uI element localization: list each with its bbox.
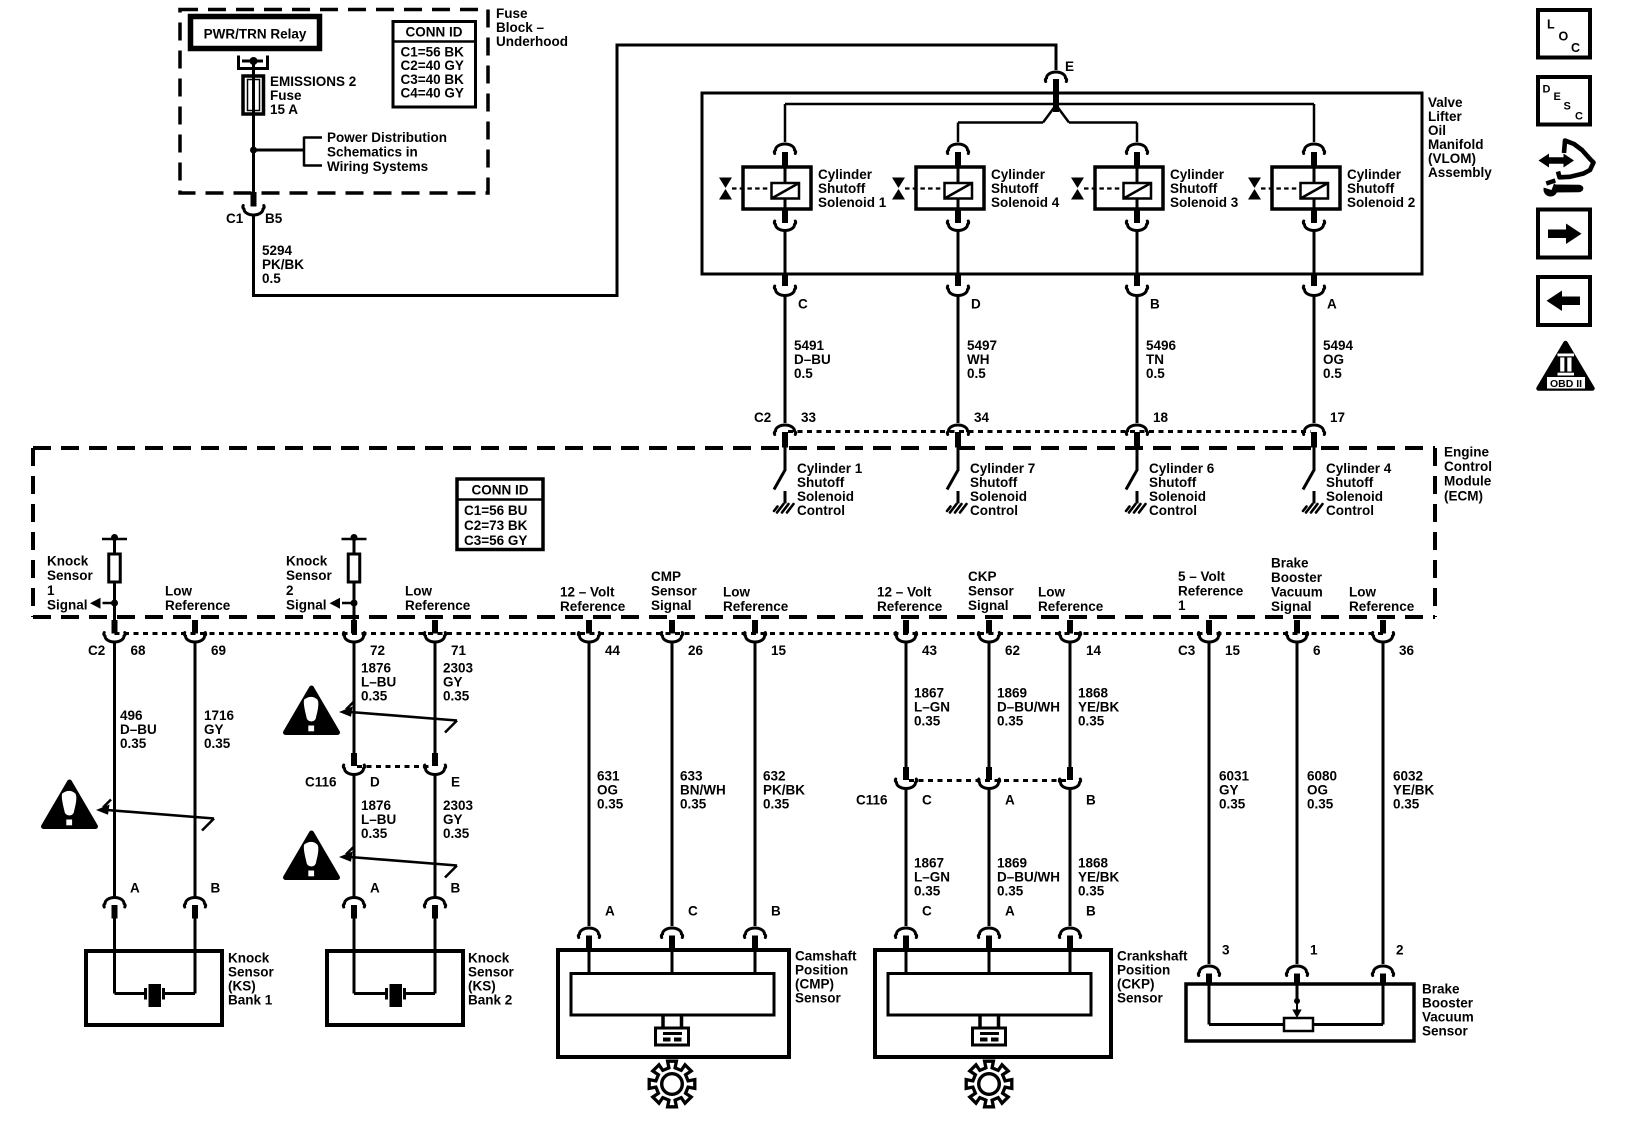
KS1 pin B (192, 905, 198, 919)
wire label: 1716 GY 0.35 (204, 708, 235, 751)
wire: C116 to CKP B (1069, 789, 1072, 927)
label: Low Reference (CKP) (1038, 584, 1104, 614)
svg-text:44: 44 (605, 643, 621, 658)
svg-text:PWR/TRN Relay: PWR/TRN Relay (204, 27, 307, 42)
BBV pin 1 (1294, 974, 1300, 985)
label: Knock Sensor (KS) Bank 1 (228, 951, 275, 1008)
BBV internal wiring (1209, 984, 1383, 1025)
svg-text:1868: 1868 (1078, 856, 1109, 871)
svg-text:2: 2 (1396, 943, 1404, 958)
svg-text:632: 632 (763, 769, 786, 784)
relay contact symbol (237, 56, 269, 71)
connector C1 pin B5 (251, 192, 257, 207)
svg-text:E: E (451, 775, 460, 790)
svg-text:6: 6 (1313, 643, 1321, 658)
svg-text:Solenoid: Solenoid (1326, 489, 1383, 504)
KS1 socket A (104, 897, 125, 907)
label: pin 33 (801, 410, 817, 425)
svg-text:Low: Low (1349, 584, 1376, 599)
junction node (111, 600, 118, 607)
label: E (1065, 59, 1074, 74)
(CKP) plug symbol (973, 1015, 1006, 1045)
connector C2 pin 33 (782, 432, 788, 448)
icon: DESC box (1538, 77, 1590, 125)
ECM dashed border top (33, 446, 1435, 450)
junction node (250, 147, 257, 154)
solenoid 2 bottom pin (1311, 209, 1317, 223)
icon: OBD II triangle (1539, 343, 1593, 390)
wire: B into KS2 (434, 919, 437, 952)
label: pin 15 (771, 643, 787, 658)
svg-text:Knock: Knock (228, 951, 270, 966)
svg-text:C1=56 BU: C1=56 BU (464, 503, 527, 518)
VLOM connector pin C (782, 274, 788, 286)
CMP socket C (661, 928, 682, 938)
ECM connector socket 72 (343, 633, 364, 643)
svg-text:Sensor: Sensor (228, 965, 275, 980)
wire label lower: 1868 YE/BK 0.35 (1078, 856, 1120, 899)
svg-text:C3: C3 (1178, 643, 1196, 658)
svg-text:34: 34 (974, 410, 990, 425)
label: pin 34 (974, 410, 990, 425)
svg-text:18: 18 (1153, 410, 1169, 425)
wire: bias to resistor (113, 539, 116, 554)
svg-text:GY: GY (1219, 783, 1239, 798)
solenoid 1 bottom socket (774, 221, 795, 231)
VLOM connector socket A (1303, 286, 1324, 296)
svg-text:Cylinder 1: Cylinder 1 (797, 461, 863, 476)
dotted connector line ECM bottom row (115, 632, 1384, 635)
svg-text:YE/BK: YE/BK (1393, 783, 1435, 798)
svg-text:5491: 5491 (794, 338, 825, 353)
svg-text:Cylinder 7: Cylinder 7 (970, 461, 1035, 476)
solenoid 4 coil (945, 183, 973, 199)
label: pin B (CMP) (771, 904, 781, 919)
icon: right arrow box (1538, 210, 1590, 258)
svg-text:Reference: Reference (877, 599, 943, 614)
wire: resistor to junction (353, 582, 356, 621)
svg-text:0.35: 0.35 (763, 797, 790, 812)
wire: bus solenoid 1 to solenoid 2 (785, 103, 1314, 106)
svg-text:Shutoff: Shutoff (1326, 475, 1374, 490)
ECM connector pin 15 (1206, 620, 1212, 634)
ECM connector socket 68 (104, 633, 125, 643)
svg-text:C2: C2 (88, 643, 105, 658)
svg-text:Position: Position (1117, 963, 1170, 978)
CKP pin B (1067, 936, 1073, 951)
wire label: 5491 D–BU 0.5 (794, 338, 831, 381)
svg-text:0.35: 0.35 (997, 884, 1024, 899)
svg-text:0.35: 0.35 (443, 689, 470, 704)
svg-text:Reference: Reference (405, 598, 471, 613)
(CMP) plug symbol (656, 1015, 689, 1045)
svg-text:Reference: Reference (1038, 599, 1104, 614)
label: pin B (KS2) (451, 881, 461, 896)
wire label: 6032 YE/BK 0.35 (1393, 769, 1435, 812)
svg-text:Crankshaft: Crankshaft (1117, 949, 1188, 964)
ECM connector socket 14 (1059, 633, 1080, 643)
svg-text:C: C (798, 297, 808, 312)
svg-text:Bank 2: Bank 2 (468, 993, 512, 1008)
svg-text:Assembly: Assembly (1428, 165, 1492, 180)
svg-text:A: A (130, 881, 140, 896)
svg-text:Solenoid: Solenoid (797, 489, 854, 504)
svg-text:0.35: 0.35 (443, 826, 470, 841)
svg-text:1867: 1867 (914, 686, 944, 701)
wire: pin 68 to KS1 A (113, 642, 116, 898)
wire: solenoid circuit 34 (957, 296, 960, 424)
svg-text:5 – Volt: 5 – Volt (1178, 569, 1226, 584)
BBV socket 1 (1286, 966, 1307, 976)
svg-text:L–BU: L–BU (361, 812, 396, 827)
connector C2 socket pin 33 (774, 425, 795, 435)
ground (cylinder 1 driver) (774, 504, 794, 513)
svg-text:E: E (1065, 59, 1074, 74)
label: Low Reference (165, 584, 231, 614)
solenoid 4 top socket (947, 144, 968, 154)
wire: ECM to C116 C (905, 642, 908, 769)
label: pin A (1327, 297, 1337, 312)
label: pin A (KS1) (130, 881, 140, 896)
ECM connector socket 6 (1286, 633, 1307, 643)
KS1 internal wiring (115, 951, 196, 994)
solenoid 1 bottom pin (782, 209, 788, 223)
svg-text:0.5: 0.5 (1146, 366, 1165, 381)
svg-text:GY: GY (443, 812, 463, 827)
svg-text:1716: 1716 (204, 708, 235, 723)
VLOM connector pin A (1311, 274, 1317, 286)
svg-text:OBD II: OBD II (1550, 378, 1582, 390)
svg-text:Sensor: Sensor (47, 568, 94, 583)
warning triangle (KS1 note) (44, 782, 96, 827)
label: pin A (KS2) (370, 881, 380, 896)
warning triangle (KS2 lower note) (286, 833, 338, 878)
ECM connector socket 43 (895, 633, 916, 643)
svg-text:6031: 6031 (1219, 769, 1250, 784)
wire label: 633 BN/WH 0.35 (680, 769, 726, 812)
svg-text:Block –: Block – (496, 20, 545, 35)
label: Fuse Block - Underhood (496, 6, 568, 49)
C116 socket E (424, 765, 445, 775)
svg-text:D: D (971, 297, 981, 312)
wire: ECM to BBV 2 (1382, 642, 1385, 965)
svg-text:0.35: 0.35 (597, 797, 624, 812)
label: Knock Sensor 2 Signal (286, 554, 333, 613)
svg-text:Sensor: Sensor (1117, 991, 1164, 1006)
svg-text:Shutoff: Shutoff (1170, 181, 1218, 196)
svg-text:Control: Control (1444, 459, 1492, 474)
wire: bus to solenoid 3 (1136, 123, 1139, 143)
brake booster vacuum sensor box (1186, 984, 1414, 1041)
svg-text:Low: Low (1038, 584, 1065, 599)
solenoid 2 valve symbol (1248, 178, 1261, 200)
cylinder shutoff solenoid 4 box (916, 167, 984, 209)
svg-text:Solenoid: Solenoid (970, 489, 1027, 504)
svg-text:2303: 2303 (443, 661, 474, 676)
svg-text:Knock: Knock (286, 554, 328, 569)
solenoid 2 dashed actuator link (1261, 187, 1298, 189)
BBV socket 2 (1372, 966, 1393, 976)
ECM connector pin 71 (432, 620, 438, 634)
svg-text:Wiring Systems: Wiring Systems (327, 159, 428, 174)
svg-text:C3=40 BK: C3=40 BK (401, 72, 465, 87)
label: C3 (ECM bottom) (1178, 643, 1196, 658)
svg-text:B: B (1086, 793, 1096, 808)
label: pin 17 (1330, 410, 1345, 425)
wire: branch to reference bracket (254, 149, 305, 152)
(CMP) sensor box (558, 950, 789, 1057)
svg-text:Sensor: Sensor (968, 584, 1015, 599)
wire: ECM to C116 B (1069, 642, 1072, 769)
ECM driver switch for cylinder 4 (1303, 447, 1314, 504)
ECM connector pin 43 (903, 620, 909, 634)
warning triangle (KS2 upper note) (286, 688, 338, 733)
knock sensor (KS) bank 1 box (86, 951, 222, 1025)
wire: solenoid 3 to VLOM case (1136, 231, 1139, 275)
ECM connector socket 15 (1198, 633, 1219, 643)
label: C1 (226, 211, 244, 226)
wire label: 496 D-BU 0.35 (120, 708, 157, 751)
reference bracket (304, 137, 322, 167)
svg-text:Fuse: Fuse (496, 6, 528, 21)
solenoid 3 top pin (1134, 152, 1140, 168)
VLOM connector socket D (947, 286, 968, 296)
svg-text:Control: Control (970, 503, 1018, 518)
svg-text:C2=40 GY: C2=40 GY (401, 58, 464, 73)
label: pin A (CKP) (1005, 904, 1015, 919)
label: pin 26 (688, 643, 704, 658)
wire: pin 71 to C116 E (434, 642, 437, 755)
svg-text:72: 72 (370, 643, 385, 658)
resistor (knock sensor 2 bias) (348, 554, 360, 582)
svg-text:OG: OG (1307, 783, 1328, 798)
ECM knock sensor 2 bias bar (342, 534, 367, 541)
leader arrow (KS1 note) (96, 800, 214, 831)
svg-text:B: B (771, 904, 781, 919)
label: Low Reference (CMP) (723, 584, 789, 614)
svg-text:Signal: Signal (286, 597, 327, 612)
svg-text:C116: C116 (305, 775, 337, 790)
label: Cylinder 7 Shutoff Solenoid Control (970, 461, 1035, 518)
wire label: 5496 TN 0.5 (1146, 338, 1177, 381)
svg-text:1876: 1876 (361, 661, 392, 676)
svg-text:Shutoff: Shutoff (797, 475, 845, 490)
svg-text:Engine: Engine (1444, 445, 1489, 460)
svg-text:YE/BK: YE/BK (1078, 700, 1120, 715)
svg-text:D–BU: D–BU (120, 722, 157, 737)
label: pin E (451, 775, 460, 790)
KS1 pin A (112, 905, 118, 919)
svg-text:68: 68 (131, 643, 147, 658)
svg-text:Valve: Valve (1428, 95, 1463, 110)
svg-text:5496: 5496 (1146, 338, 1177, 353)
label: pin 14 (1086, 643, 1102, 658)
svg-text:Cylinder 6: Cylinder 6 (1149, 461, 1215, 476)
KS2 internal wiring (354, 951, 435, 994)
ECM driver switch for cylinder 6 (1126, 447, 1137, 504)
wire: resistor to junction (113, 582, 116, 621)
label: pin B (C116 CKP) (1086, 793, 1096, 808)
wire: solenoid 1 to VLOM case (784, 231, 787, 275)
label: pin 68 (131, 643, 147, 658)
label: C2 (ECM bottom) (88, 643, 105, 658)
cylinder shutoff solenoid 2 box (1272, 167, 1340, 209)
wire: C116 D to KS2 A (353, 775, 356, 898)
svg-text:B: B (1150, 297, 1160, 312)
wire: A into KS1 (113, 919, 116, 952)
ECM dashed border left (31, 448, 35, 617)
ECM knock sensor 1 bias bar (102, 534, 127, 541)
svg-text:Solenoid 4: Solenoid 4 (991, 195, 1060, 210)
svg-text:0.35: 0.35 (1307, 797, 1334, 812)
CONN ID table (ECM) (457, 479, 543, 550)
solenoid 3 bottom pin (1134, 209, 1140, 223)
ground (cylinder 4 driver) (1303, 504, 1323, 513)
(CMP) inner element (571, 950, 774, 1015)
label: Valve Lifter Oil Manifold (VLOM) Assembly (1428, 95, 1492, 180)
svg-text:OG: OG (1323, 352, 1344, 367)
VLOM connector pin D (955, 274, 961, 286)
knock sensor (KS) bank 2 box (327, 951, 463, 1025)
label: pin 2 (BBV) (1396, 943, 1404, 958)
label: Cylinder 4 Shutoff Solenoid Control (1326, 461, 1392, 518)
label: Cylinder Shutoff Solenoid 2 (1347, 167, 1415, 210)
connector E pin into VLOM (1053, 79, 1059, 112)
ECM connector pin 72 (351, 620, 357, 634)
svg-text:D–BU/WH: D–BU/WH (997, 870, 1060, 885)
svg-text:CONN ID: CONN ID (406, 24, 463, 39)
svg-text:Knock: Knock (468, 951, 510, 966)
relay K: PWR/TRN Relay box (191, 17, 320, 49)
svg-text:Control: Control (1149, 503, 1197, 518)
label: pin 36 (1399, 643, 1415, 658)
svg-text:Reference: Reference (560, 599, 626, 614)
KS1 socket B (184, 897, 205, 907)
svg-text:S: S (1564, 101, 1571, 113)
svg-text:0.35: 0.35 (1219, 797, 1246, 812)
CKP socket B (1059, 928, 1080, 938)
svg-text:C: C (1571, 41, 1580, 55)
wire label: 1876 L-BU 0.35 (upper) (361, 661, 396, 704)
wire label: 5497 WH 0.5 (967, 338, 997, 381)
svg-text:1: 1 (1310, 943, 1318, 958)
label: 5-Volt Reference 1 (1178, 569, 1244, 613)
wire label upper: 1869 D–BU/WH 0.35 (997, 686, 1060, 729)
wire: fuse down to connector C1 (252, 114, 255, 192)
wire label: 632 PK/BK 0.35 (763, 769, 805, 812)
svg-text:Cylinder: Cylinder (1347, 167, 1402, 182)
svg-text:Oil: Oil (1428, 123, 1446, 138)
svg-text:BN/WH: BN/WH (680, 783, 726, 798)
svg-text:CONN ID: CONN ID (472, 482, 529, 497)
label: Knock Sensor 1 Signal (47, 554, 94, 613)
svg-text:C2=73 BK: C2=73 BK (464, 518, 528, 533)
svg-text:D: D (1543, 84, 1551, 96)
connector C2 socket pin 17 (1303, 425, 1324, 435)
label: Cylinder Shutoff Solenoid 3 (1170, 167, 1239, 210)
ECM connector socket 62 (978, 633, 999, 643)
svg-text:D–BU/WH: D–BU/WH (997, 700, 1060, 715)
solenoid 3 valve symbol (1071, 178, 1084, 200)
svg-text:Reference: Reference (1349, 599, 1415, 614)
svg-text:O: O (1559, 30, 1569, 44)
svg-text:(KS): (KS) (228, 979, 256, 994)
BBV socket 3 (1198, 966, 1219, 976)
svg-text:Signal: Signal (968, 598, 1009, 613)
svg-text:26: 26 (688, 643, 704, 658)
svg-text:6080: 6080 (1307, 769, 1337, 784)
wire: C1 to connector E (254, 45, 1057, 296)
ECM connector pin 44 (586, 620, 592, 634)
label: pin 44 (605, 643, 621, 658)
CKP pin C (903, 936, 909, 951)
solenoid 3 top socket (1126, 144, 1147, 154)
cylinder shutoff solenoid 3 box (1095, 167, 1163, 209)
svg-text:(CMP): (CMP) (795, 977, 834, 992)
icon: LOC box (1538, 10, 1590, 58)
ECM connector pin 15 (752, 620, 758, 634)
svg-text:Brake: Brake (1422, 982, 1460, 997)
C116 socket B (CKP) (1059, 779, 1080, 789)
ECM connector pin 6 (1294, 620, 1300, 634)
svg-text:Position: Position (795, 963, 848, 978)
CMP socket B (744, 928, 765, 938)
wire: pin 69 to KS1 B (194, 642, 197, 898)
wire: ECM to CMP C (671, 642, 674, 927)
svg-text:36: 36 (1399, 643, 1415, 658)
label: pin 3 (BBV) (1222, 943, 1230, 958)
svg-text:Camshaft: Camshaft (795, 949, 857, 964)
svg-text:6032: 6032 (1393, 769, 1423, 784)
wire label: 6031 GY 0.35 (1219, 769, 1250, 812)
cylinder shutoff solenoid 1 box (743, 167, 811, 209)
svg-text:Sensor: Sensor (286, 568, 333, 583)
svg-text:Low: Low (723, 584, 750, 599)
wire: bus to solenoid 4 (957, 123, 960, 143)
svg-text:Brake: Brake (1271, 555, 1309, 570)
piezo element (KS1) (146, 984, 164, 1007)
solenoid 1 top socket (774, 144, 795, 154)
dotted connector line C2 row (788, 430, 1311, 433)
label: pin B (1150, 297, 1160, 312)
(CKP) reluctor gear (966, 1061, 1012, 1107)
svg-text:C: C (922, 904, 932, 919)
ECM connector socket 26 (661, 633, 682, 643)
svg-text:0.35: 0.35 (997, 714, 1024, 729)
svg-text:Shutoff: Shutoff (991, 181, 1039, 196)
svg-text:0.35: 0.35 (120, 736, 147, 751)
ECM connector socket 15 (744, 633, 765, 643)
wire label: 5294 PK/BK 0.5 (262, 243, 304, 286)
svg-text:Cylinder: Cylinder (818, 167, 873, 182)
svg-text:Reference: Reference (165, 598, 231, 613)
svg-text:PK/BK: PK/BK (763, 783, 805, 798)
svg-text:0.35: 0.35 (361, 689, 388, 704)
solenoid 1 dashed actuator link (732, 187, 769, 189)
wire: ECM to BBV 3 (1208, 642, 1211, 965)
svg-text:2303: 2303 (443, 798, 474, 813)
wire: A into KS2 (353, 919, 356, 952)
svg-text:C1: C1 (226, 211, 244, 226)
VLOM connector pin B (1134, 274, 1140, 286)
svg-text:0.35: 0.35 (1078, 714, 1105, 729)
wire label: 1876 L-BU 0.35 (lower) (361, 798, 396, 841)
label: pin 71 (451, 643, 467, 658)
svg-text:B: B (1086, 904, 1096, 919)
label: pin C (CMP) (688, 904, 698, 919)
solenoid 4 top pin (955, 152, 961, 168)
C116 pin B (CKP) (1067, 767, 1073, 780)
